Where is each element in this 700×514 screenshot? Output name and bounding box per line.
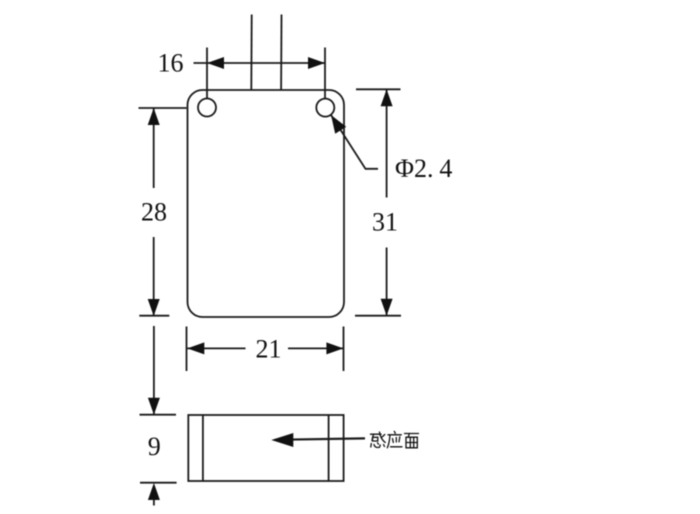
chain line from body to side view: [153, 326, 155, 414]
dim21 arrow left: [187, 342, 204, 354]
mounting hole left: [198, 99, 216, 117]
svg-text:4: 4: [439, 154, 452, 183]
leader arrowhead: [331, 115, 346, 134]
dim16 arrow left: [207, 57, 224, 69]
leader line for hole diameter: [331, 115, 378, 169]
svg-text:21: 21: [256, 334, 282, 363]
char gan: [371, 432, 386, 448]
dim9 arrow top pointing down: [148, 398, 160, 415]
label ganyingmian (sensing face) characters: [371, 431, 419, 448]
sensing face arrowhead: [271, 433, 293, 447]
dim31 arrow bottom: [381, 299, 393, 316]
svg-text:9: 9: [148, 432, 161, 461]
dim21 extension line left: [186, 327, 188, 372]
body outline (front view): [188, 90, 345, 317]
dim21 arrow right: [326, 342, 343, 354]
wire right: [280, 15, 282, 91]
svg-text:Φ2.: Φ2.: [395, 154, 434, 183]
dim28 dimension line upper: [153, 108, 155, 188]
dim28 extension tick bottom: [139, 315, 169, 317]
dim16 extension line left: [206, 48, 208, 99]
dim31 extension tick bottom: [355, 315, 401, 317]
dim9 arrow bottom pointing up: [148, 483, 160, 500]
dim31 extension line top: [356, 88, 401, 90]
svg-text:28: 28: [141, 198, 167, 227]
dim31 arrow top: [381, 89, 393, 106]
dim28 extension line top: [139, 107, 187, 109]
dim16 extension line right: [324, 48, 326, 99]
dim21 dimension line left segment: [187, 347, 245, 349]
dim9 extension tick top: [140, 414, 177, 416]
dim31 dimension line lower: [386, 248, 388, 316]
dim28 arrow bottom: [148, 299, 160, 316]
dim28 arrow top: [148, 108, 160, 125]
dim16 arrow right: [308, 57, 325, 69]
side view inner line left: [202, 415, 204, 481]
dim16 dimension line: [194, 62, 326, 64]
mounting hole right: [316, 99, 334, 117]
dim21 extension line right: [343, 327, 345, 372]
svg-text:31: 31: [372, 208, 398, 237]
side view rectangle: [188, 415, 343, 481]
svg-text:16: 16: [158, 49, 184, 78]
char ying: [387, 431, 402, 448]
dim9 extension tick bottom: [140, 482, 177, 484]
side view inner line right: [328, 415, 330, 481]
dim31 dimension line upper: [386, 89, 388, 197]
dim28 dimension line lower: [153, 237, 155, 316]
char mian: [405, 434, 419, 448]
sensing face leader line: [275, 438, 365, 439]
wire left: [250, 15, 252, 91]
dim21 dimension line right segment: [288, 347, 343, 349]
dim9 tail line bottom: [153, 500, 155, 506]
